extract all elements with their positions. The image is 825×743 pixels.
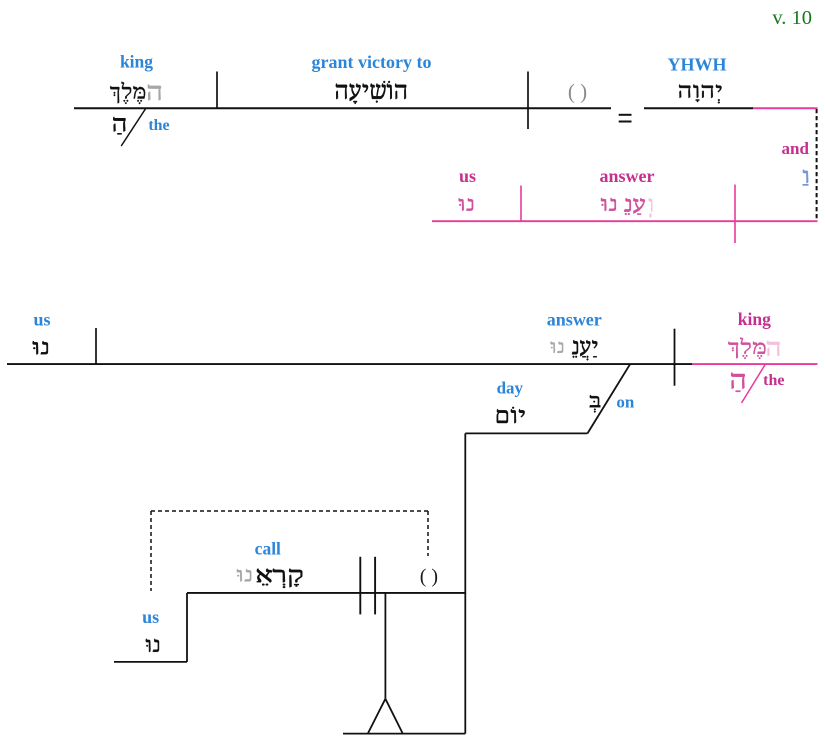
svg-text:us: us (33, 309, 50, 329)
embedded clause bottom line (343, 733, 465, 735)
hebrew vav prefix light (clause 2) (649, 198, 653, 212)
clause 2 baseline (pink) (432, 220, 818, 222)
hebrew article ha below line (clause 1) (113, 117, 125, 134)
clause 3 baseline black part (7, 363, 692, 365)
equals sign (619, 114, 632, 123)
dashed connector left vertical (150, 511, 152, 591)
hebrew nu suffix gray (clause 4) (237, 569, 251, 581)
svg-text:king: king (738, 309, 771, 329)
svg-text:us: us (459, 166, 476, 186)
connector vertical to embedded clause (464, 433, 466, 733)
pedestal triangle (368, 699, 403, 734)
clause 1 right baseline black part (644, 107, 753, 109)
clause 1 subject-verb divider (216, 72, 218, 109)
hebrew nu subject (clause 4) (146, 639, 159, 652)
clause 1 baseline (74, 107, 611, 109)
article slash pink (clause 3) (742, 364, 766, 404)
svg-text:king: king (120, 52, 153, 72)
hebrew yaane verb stem (clause 3) (572, 340, 597, 360)
svg-text:and: and (781, 139, 809, 158)
modifier horizontal line (465, 432, 587, 434)
hebrew qare verb stem (clause 4) (257, 569, 302, 588)
svg-text:answer: answer (547, 309, 602, 329)
hebrew melek pink (clause 3) (728, 337, 765, 359)
hebrew article he light pink (clause 3) (767, 341, 779, 356)
clause 4 baseline (187, 592, 465, 594)
underline mark below vav conjunction (803, 184, 809, 186)
hebrew be preposition (590, 395, 601, 412)
conjunction dashed connector (816, 109, 818, 220)
clause 1 right baseline pink part (753, 107, 818, 109)
svg-text:answer: answer (600, 166, 655, 186)
clause 2 object divider (pink) (734, 185, 736, 244)
svg-text:grant victory to: grant victory to (312, 52, 432, 72)
hebrew nu subject (clause 3) (33, 341, 48, 354)
hebrew nu suffix of verb (clause 2) (601, 198, 616, 211)
svg-text:( ): ( ) (420, 566, 438, 588)
hebrew hoshia (verb clause 1) (336, 81, 406, 104)
sheva mark below vav prefix (clause 2) (649, 214, 651, 218)
pedestal vertical (384, 593, 386, 699)
dashed connector horizontal (151, 510, 428, 512)
hebrew YHWH (679, 85, 721, 104)
hebrew yom (497, 407, 525, 423)
preposition slant line (588, 364, 631, 433)
svg-text:on: on (616, 392, 635, 411)
hebrew nu suffix gray (clause 3) (551, 342, 564, 354)
svg-text:the: the (763, 372, 784, 389)
clause 3 subject-verb divider (95, 328, 97, 364)
svg-text:us: us (142, 607, 159, 627)
clause 1 verb-object divider (527, 72, 529, 130)
hebrew vav conjunction (light blue) (803, 170, 808, 183)
clause 4 subject step vertical (186, 593, 188, 662)
svg-text:day: day (497, 378, 524, 397)
hebrew melek (clause 1) (110, 82, 145, 104)
article slash (clause 1) (121, 109, 146, 147)
clause 4 subject step horizontal (114, 661, 187, 663)
clause 2 subject-verb divider (pink) (520, 186, 522, 222)
svg-text:YHWH: YHWH (667, 54, 726, 74)
clause 3 verb-object divider (674, 329, 676, 386)
svg-text:the: the (148, 117, 169, 134)
hebrew nu subject (clause 2) (459, 198, 473, 211)
clause 3 baseline pink part (692, 363, 818, 365)
svg-text:call: call (255, 539, 281, 559)
hebrew ane verb stem (clause 2) (624, 198, 645, 215)
double bar left (359, 557, 361, 615)
hebrew article he, grayed (clause 1) (148, 85, 161, 101)
dashed connector right vertical (427, 511, 429, 556)
svg-text:( ): ( ) (568, 80, 587, 104)
double bar right (374, 557, 376, 615)
svg-text:v. 10: v. 10 (772, 7, 812, 29)
hebrew article ha pink below line (clause 3) (731, 373, 744, 392)
